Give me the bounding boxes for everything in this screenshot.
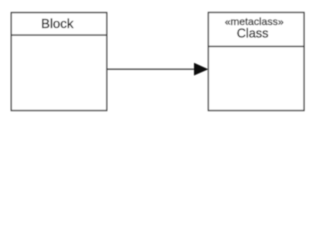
svg-text:Block: Block (41, 16, 74, 31)
metaclass box (right) (208, 13, 304, 111)
svg-text:Class: Class (237, 27, 269, 41)
extension arrow wire (107, 68, 198, 70)
block class box (left) (11, 13, 106, 111)
left box header separator (11, 34, 106, 36)
extension arrowhead (filled triangle) (194, 63, 207, 75)
right box header separator (208, 45, 304, 47)
